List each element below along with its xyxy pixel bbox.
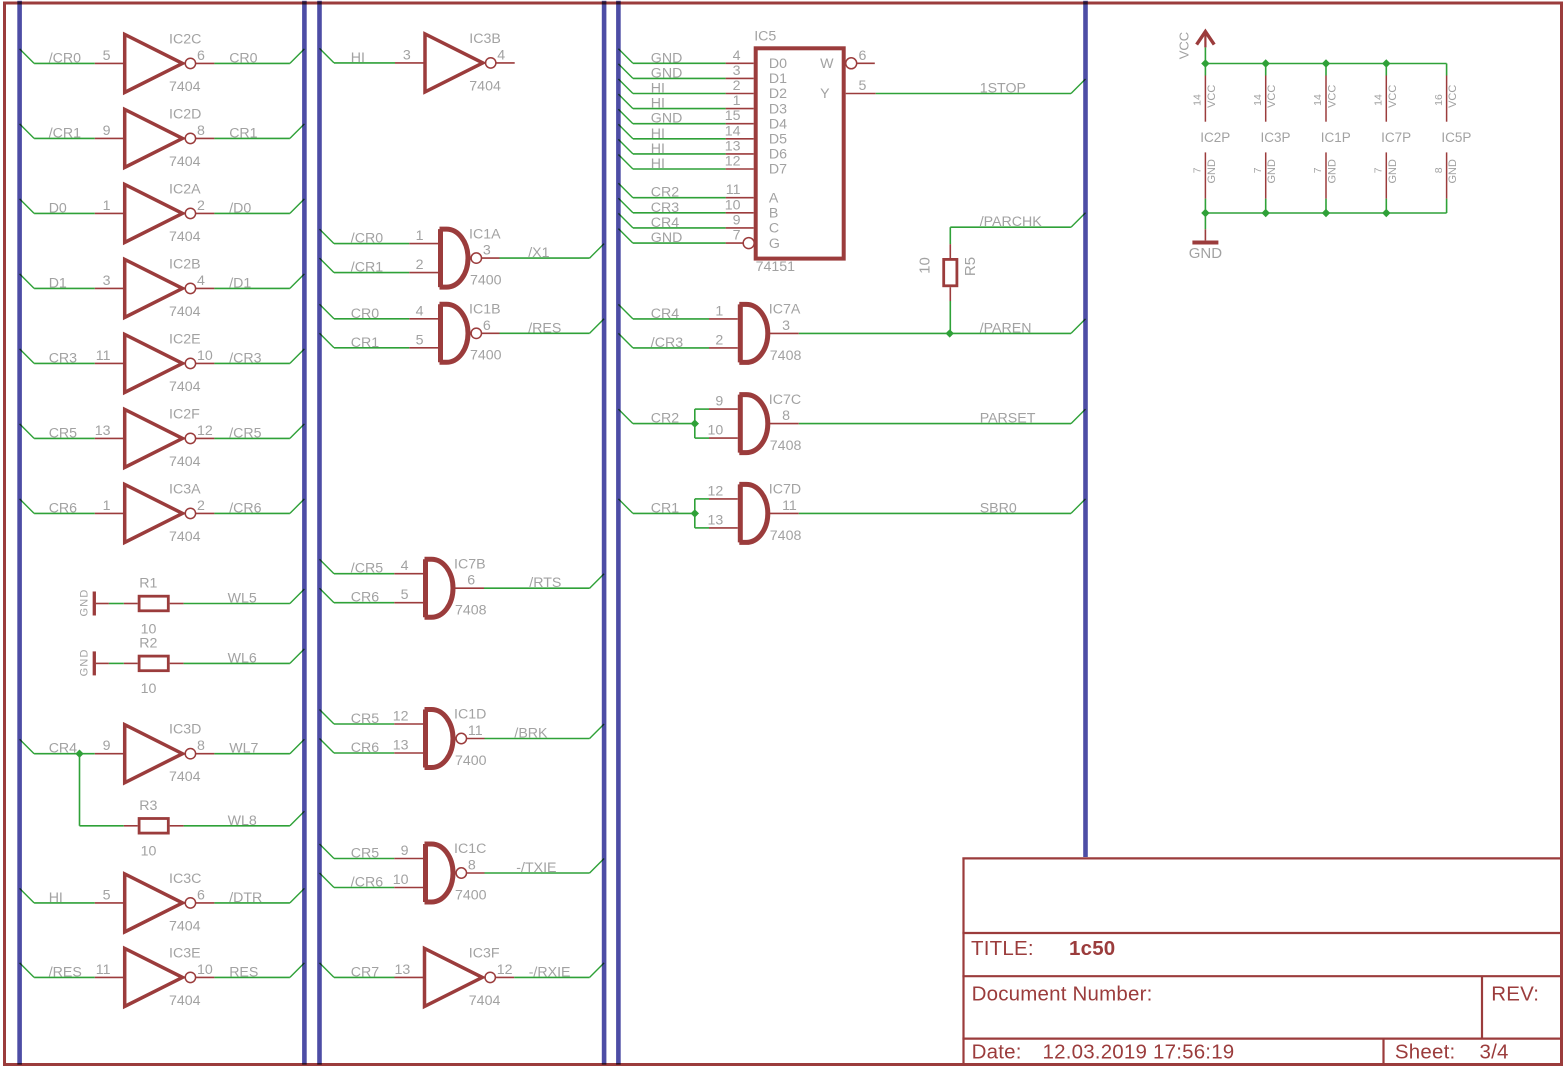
svg-text:CR3: CR3	[49, 350, 77, 366]
svg-text:CR2: CR2	[651, 411, 679, 427]
svg-text:IC7D: IC7D	[769, 482, 801, 498]
svg-text:IC3P: IC3P	[1261, 130, 1291, 145]
svg-text:7400: 7400	[470, 273, 502, 289]
svg-text:10: 10	[141, 681, 157, 697]
svg-text:CR1: CR1	[651, 500, 679, 516]
svg-text:8: 8	[1433, 167, 1445, 173]
svg-text:CR2: CR2	[651, 185, 679, 201]
svg-text:VCC: VCC	[1266, 85, 1278, 108]
svg-text:IC2P: IC2P	[1200, 130, 1230, 145]
svg-text:10: 10	[708, 423, 724, 439]
svg-text:/DTR: /DTR	[229, 890, 262, 906]
svg-text:C: C	[769, 221, 779, 237]
svg-text:D3: D3	[769, 101, 787, 117]
svg-text:8: 8	[468, 858, 476, 874]
svg-text:11: 11	[96, 348, 111, 364]
svg-text:9: 9	[401, 843, 409, 859]
svg-text:GND: GND	[651, 111, 683, 127]
svg-text:/RES: /RES	[49, 964, 82, 980]
svg-text:/PARCHK: /PARCHK	[980, 214, 1043, 230]
svg-text:IC7B: IC7B	[454, 556, 486, 572]
svg-text:11: 11	[468, 723, 483, 739]
svg-text:7404: 7404	[169, 379, 201, 395]
svg-text:4: 4	[416, 303, 424, 319]
svg-text:1STOP: 1STOP	[980, 81, 1026, 97]
svg-text:CR5: CR5	[351, 846, 379, 862]
svg-text:13: 13	[95, 423, 111, 439]
svg-text:IC2F: IC2F	[169, 406, 200, 422]
svg-text:1: 1	[103, 198, 111, 214]
svg-text:4: 4	[401, 558, 409, 574]
svg-text:12: 12	[708, 483, 724, 499]
svg-text:10: 10	[141, 844, 157, 860]
svg-text:/CR0: /CR0	[351, 231, 383, 247]
svg-text:3: 3	[103, 273, 111, 289]
svg-text:IC7P: IC7P	[1381, 130, 1411, 145]
svg-text:10: 10	[393, 872, 409, 888]
svg-text:11: 11	[726, 182, 741, 198]
svg-text:CR4: CR4	[651, 215, 679, 231]
svg-text:3: 3	[782, 318, 790, 334]
svg-text:10: 10	[197, 962, 213, 978]
svg-text:D0: D0	[49, 200, 67, 216]
svg-text:A: A	[769, 190, 779, 206]
svg-text:1c50: 1c50	[1069, 937, 1115, 960]
svg-text:7404: 7404	[169, 229, 201, 245]
svg-text:/BRK: /BRK	[514, 726, 548, 742]
svg-text:7404: 7404	[469, 993, 501, 1009]
svg-text:2: 2	[733, 78, 741, 94]
svg-text:7404: 7404	[169, 454, 201, 470]
svg-text:IC5: IC5	[754, 29, 776, 45]
svg-text:7404: 7404	[169, 529, 201, 545]
svg-text:/D1: /D1	[229, 275, 251, 291]
svg-text:/CR3: /CR3	[651, 335, 683, 351]
svg-text:1: 1	[715, 303, 723, 319]
svg-text:VCC: VCC	[1327, 85, 1339, 108]
svg-text:IC3C: IC3C	[169, 871, 201, 887]
svg-text:CR0: CR0	[351, 306, 379, 322]
svg-text:IC2D: IC2D	[169, 106, 201, 122]
svg-text:5: 5	[103, 887, 111, 903]
svg-text:CR7: CR7	[351, 964, 379, 980]
svg-text:74151: 74151	[756, 259, 796, 275]
svg-text:12.03.2019 17:56:19: 12.03.2019 17:56:19	[1043, 1041, 1235, 1064]
svg-text:IC3D: IC3D	[169, 722, 201, 738]
svg-text:IC7C: IC7C	[769, 392, 801, 408]
svg-text:6: 6	[197, 887, 205, 903]
svg-text:IC1P: IC1P	[1321, 130, 1351, 145]
svg-text:/CR6: /CR6	[351, 875, 383, 891]
svg-text:R3: R3	[139, 798, 157, 814]
svg-text:6: 6	[483, 318, 491, 334]
svg-text:IC2A: IC2A	[169, 181, 201, 197]
svg-text:HI: HI	[651, 126, 665, 142]
svg-text:IC3F: IC3F	[469, 945, 500, 961]
svg-text:10: 10	[725, 197, 741, 213]
svg-text:HI: HI	[651, 141, 665, 157]
svg-text:9: 9	[733, 212, 741, 228]
svg-text:9: 9	[103, 123, 111, 139]
svg-text:12: 12	[497, 962, 513, 978]
svg-text:7400: 7400	[470, 348, 502, 364]
svg-text:/PAREN: /PAREN	[980, 320, 1032, 336]
svg-text:7404: 7404	[169, 918, 201, 934]
svg-text:3: 3	[733, 63, 741, 79]
svg-text:13: 13	[393, 738, 409, 754]
svg-text:R2: R2	[139, 636, 157, 652]
svg-text:IC5P: IC5P	[1441, 130, 1471, 145]
svg-text:7408: 7408	[770, 528, 802, 544]
svg-text:2: 2	[715, 332, 723, 348]
svg-text:5: 5	[859, 78, 867, 94]
svg-text:GND: GND	[651, 50, 683, 66]
svg-text:IC1D: IC1D	[454, 707, 486, 723]
svg-text:10: 10	[197, 348, 213, 364]
svg-text:SBR0: SBR0	[980, 500, 1017, 516]
svg-text:7408: 7408	[455, 603, 487, 619]
svg-text:D1: D1	[49, 275, 67, 291]
svg-text:HI: HI	[651, 156, 665, 172]
svg-text:CR0: CR0	[229, 50, 257, 66]
svg-text:6: 6	[197, 48, 205, 64]
svg-text:14: 14	[1373, 94, 1385, 106]
svg-text:D7: D7	[769, 162, 787, 178]
svg-text:2: 2	[197, 198, 205, 214]
svg-text:2: 2	[197, 498, 205, 514]
svg-text:Date:: Date:	[972, 1041, 1022, 1064]
svg-text:8: 8	[782, 408, 790, 424]
svg-text:IC3A: IC3A	[169, 481, 201, 497]
svg-text:14: 14	[1192, 94, 1204, 106]
svg-text:7: 7	[1192, 167, 1204, 173]
svg-text:-/TXIE: -/TXIE	[516, 860, 556, 876]
svg-text:1: 1	[733, 93, 741, 109]
svg-text:/D0: /D0	[229, 200, 251, 216]
svg-text:9: 9	[103, 738, 111, 754]
svg-text:GND: GND	[1387, 159, 1399, 184]
svg-text:IC1A: IC1A	[469, 226, 501, 242]
svg-text:11: 11	[96, 962, 111, 978]
svg-text:Document Number:: Document Number:	[972, 983, 1153, 1006]
svg-text:VCC: VCC	[1176, 32, 1191, 59]
svg-text:12: 12	[725, 154, 741, 170]
svg-text:/CR5: /CR5	[229, 425, 261, 441]
svg-text:/RES: /RES	[528, 320, 561, 336]
svg-text:D1: D1	[769, 71, 787, 87]
svg-text:3: 3	[403, 47, 411, 63]
svg-text:4: 4	[497, 47, 505, 63]
svg-text:HI: HI	[49, 890, 63, 906]
svg-text:/CR5: /CR5	[351, 561, 383, 577]
svg-text:WL5: WL5	[228, 591, 257, 607]
svg-text:2: 2	[416, 257, 424, 273]
svg-text:IC2B: IC2B	[169, 256, 201, 272]
svg-text:7408: 7408	[770, 438, 802, 454]
svg-text:GND: GND	[79, 588, 91, 616]
svg-text:13: 13	[725, 138, 741, 154]
svg-text:IC1B: IC1B	[469, 302, 501, 318]
svg-text:R1: R1	[139, 576, 157, 592]
svg-text:D2: D2	[769, 86, 787, 102]
svg-text:CR1: CR1	[229, 125, 257, 141]
svg-text:7: 7	[733, 228, 741, 244]
svg-text:W: W	[820, 56, 834, 72]
svg-text:6: 6	[467, 573, 475, 589]
svg-text:R5: R5	[962, 257, 979, 276]
svg-text:1: 1	[103, 498, 111, 514]
svg-text:1: 1	[416, 228, 424, 244]
svg-text:Sheet:: Sheet:	[1395, 1041, 1455, 1064]
svg-text:D6: D6	[769, 147, 787, 163]
svg-text:CR6: CR6	[351, 590, 379, 606]
svg-text:14: 14	[1252, 94, 1264, 106]
svg-text:GND: GND	[1327, 159, 1339, 184]
svg-text:D0: D0	[769, 56, 787, 72]
svg-text:WL8: WL8	[228, 813, 257, 829]
svg-text:13: 13	[708, 512, 724, 528]
svg-text:-/RXIE: -/RXIE	[529, 964, 571, 980]
svg-text:CR6: CR6	[49, 500, 77, 516]
svg-text:/X1: /X1	[528, 245, 549, 261]
svg-text:12: 12	[197, 423, 213, 439]
svg-text:13: 13	[395, 962, 411, 978]
svg-text:B: B	[769, 206, 778, 222]
svg-text:CR6: CR6	[351, 740, 379, 756]
svg-text:/CR1: /CR1	[351, 260, 383, 276]
svg-text:/CR6: /CR6	[229, 500, 261, 516]
svg-text:/CR3: /CR3	[229, 350, 261, 366]
svg-text:14: 14	[725, 123, 741, 139]
svg-text:7: 7	[1373, 167, 1385, 173]
svg-text:TITLE:: TITLE:	[971, 937, 1034, 960]
svg-text:5: 5	[401, 587, 409, 603]
svg-text:IC1C: IC1C	[454, 841, 486, 857]
svg-text:8: 8	[197, 123, 205, 139]
svg-text:CR4: CR4	[49, 741, 77, 757]
svg-text:D5: D5	[769, 132, 787, 148]
svg-text:WL6: WL6	[228, 650, 257, 666]
svg-text:CR5: CR5	[351, 711, 379, 727]
svg-text:GND: GND	[1447, 159, 1459, 184]
svg-text:CR5: CR5	[49, 425, 77, 441]
svg-text:7: 7	[1312, 167, 1324, 173]
svg-text:3: 3	[483, 243, 491, 259]
svg-text:VCC: VCC	[1206, 85, 1218, 108]
svg-text:14: 14	[1312, 94, 1324, 106]
svg-text:GND: GND	[1189, 245, 1223, 262]
svg-text:16: 16	[1433, 94, 1445, 106]
svg-text:VCC: VCC	[1447, 85, 1459, 108]
svg-text:3/4: 3/4	[1480, 1041, 1509, 1064]
svg-text:7404: 7404	[169, 79, 201, 95]
svg-text:4: 4	[733, 48, 741, 64]
svg-text:PARSET: PARSET	[980, 411, 1036, 427]
svg-text:CR1: CR1	[351, 335, 379, 351]
svg-text:HI: HI	[651, 96, 665, 112]
svg-text:GND: GND	[1266, 159, 1278, 184]
svg-text:10: 10	[917, 257, 934, 274]
svg-text:GND: GND	[651, 230, 683, 246]
svg-text:/RTS: /RTS	[529, 575, 561, 591]
svg-text:4: 4	[197, 273, 205, 289]
svg-text:VCC: VCC	[1387, 85, 1399, 108]
svg-text:8: 8	[197, 738, 205, 754]
svg-text:7404: 7404	[169, 304, 201, 320]
svg-text:11: 11	[782, 498, 797, 514]
svg-text:REV:: REV:	[1491, 983, 1539, 1006]
svg-text:7400: 7400	[455, 887, 487, 903]
svg-text:CR4: CR4	[651, 306, 679, 322]
svg-text:GND: GND	[79, 648, 91, 676]
svg-text:GND: GND	[651, 65, 683, 81]
svg-text:7404: 7404	[169, 154, 201, 170]
svg-text:7: 7	[1252, 167, 1264, 173]
svg-text:G: G	[769, 236, 780, 252]
svg-text:7404: 7404	[469, 78, 501, 94]
svg-text:RES: RES	[229, 964, 258, 980]
svg-text:CR3: CR3	[651, 200, 679, 216]
svg-text:/CR0: /CR0	[49, 50, 81, 66]
svg-text:HI: HI	[351, 50, 365, 66]
svg-text:7404: 7404	[169, 769, 201, 785]
svg-text:12: 12	[393, 709, 409, 725]
svg-text:IC2C: IC2C	[169, 31, 201, 47]
svg-text:GND: GND	[1206, 159, 1218, 184]
svg-text:15: 15	[725, 108, 741, 124]
svg-text:D4: D4	[769, 116, 787, 132]
svg-text:IC3B: IC3B	[469, 31, 501, 47]
svg-text:7408: 7408	[770, 348, 802, 364]
svg-text:WL7: WL7	[229, 741, 258, 757]
svg-text:6: 6	[859, 48, 867, 64]
svg-text:7400: 7400	[455, 753, 487, 769]
svg-text:IC2E: IC2E	[169, 331, 201, 347]
svg-text:/CR1: /CR1	[49, 125, 81, 141]
svg-text:5: 5	[103, 48, 111, 64]
svg-text:HI: HI	[651, 81, 665, 97]
svg-text:IC3E: IC3E	[169, 945, 201, 961]
svg-text:Y: Y	[820, 86, 830, 102]
svg-text:5: 5	[416, 332, 424, 348]
svg-text:IC7A: IC7A	[769, 302, 801, 318]
svg-text:7404: 7404	[169, 993, 201, 1009]
svg-text:9: 9	[715, 394, 723, 410]
